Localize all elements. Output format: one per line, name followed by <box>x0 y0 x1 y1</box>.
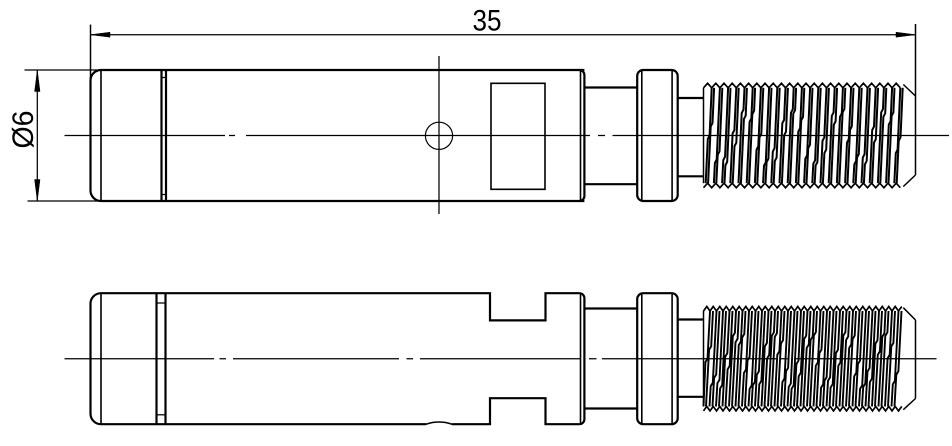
svg-text:35: 35 <box>473 5 502 38</box>
svg-text:Ø6: Ø6 <box>7 111 40 149</box>
